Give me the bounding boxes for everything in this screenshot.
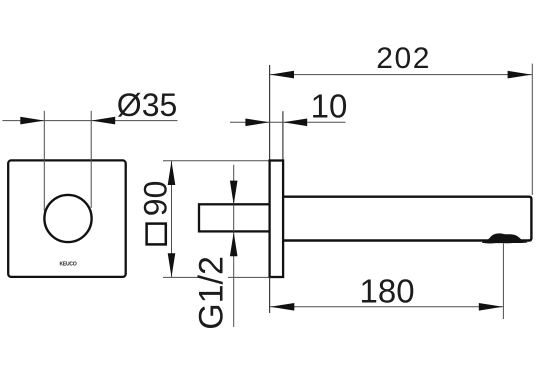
- dimension 202 extension line right: [531, 64, 533, 195]
- front view: circle (spout escutcheon bore): [44, 195, 91, 242]
- dimension 202 line: [270, 74, 532, 76]
- G1/2 dimension line through pipe: [233, 205, 235, 231]
- dimension 10 arrow right: [283, 119, 307, 127]
- spout outlet bump: [482, 233, 527, 243]
- svg-text:180: 180: [360, 273, 415, 310]
- side view: wall plate: [270, 161, 284, 278]
- dimension 202 arrow right: [508, 71, 532, 79]
- wall face extension line above plate: [269, 65, 271, 161]
- dimension Ø35 line: [2, 120, 177, 122]
- spout tube side view: [283, 197, 531, 241]
- dimension 90 extension line bottom: [163, 276, 200, 278]
- dimension 180 extension line right: [502, 244, 504, 320]
- G1/2 arrow up: [230, 232, 238, 256]
- G1/2 arrow down: [230, 181, 238, 205]
- svg-text:Ø35: Ø35: [117, 87, 177, 123]
- dimension 202 arrow left: [270, 71, 294, 79]
- svg-text:G1/2: G1/2: [193, 256, 231, 330]
- dimension Ø35 arrow left: [20, 117, 44, 125]
- dimension 90 line: [171, 161, 173, 278]
- dimension 90 arrow top: [168, 161, 176, 185]
- front view: square wall plate: [8, 160, 126, 277]
- square symbol: [147, 224, 166, 245]
- dimension Ø35 extension line left: [43, 111, 45, 211]
- dimension 10 line: [230, 121, 346, 123]
- dimension 90 extension line top: [163, 160, 271, 162]
- plate front face extension line: [282, 111, 284, 160]
- svg-text:90: 90: [137, 181, 173, 217]
- svg-text:KEUCO: KEUCO: [59, 262, 76, 268]
- dimension 180 arrow right: [479, 303, 503, 311]
- dimension Ø35 arrow right: [91, 117, 115, 125]
- dimension 180 arrow left: [270, 303, 294, 311]
- G1/2 threaded pipe: [199, 204, 270, 231]
- dimension 180 extension line left: [269, 277, 271, 313]
- G1/2 dimension line lower: [233, 231, 235, 327]
- dimension Ø35 extension line right: [90, 111, 92, 208]
- svg-text:10: 10: [311, 87, 348, 124]
- G1/2 dimension line upper: [233, 165, 235, 205]
- dimension 180 line: [270, 306, 504, 308]
- svg-text:202: 202: [376, 42, 431, 75]
- dimension 90 arrow bottom: [168, 253, 176, 277]
- dimension 10 arrow left: [245, 119, 269, 127]
